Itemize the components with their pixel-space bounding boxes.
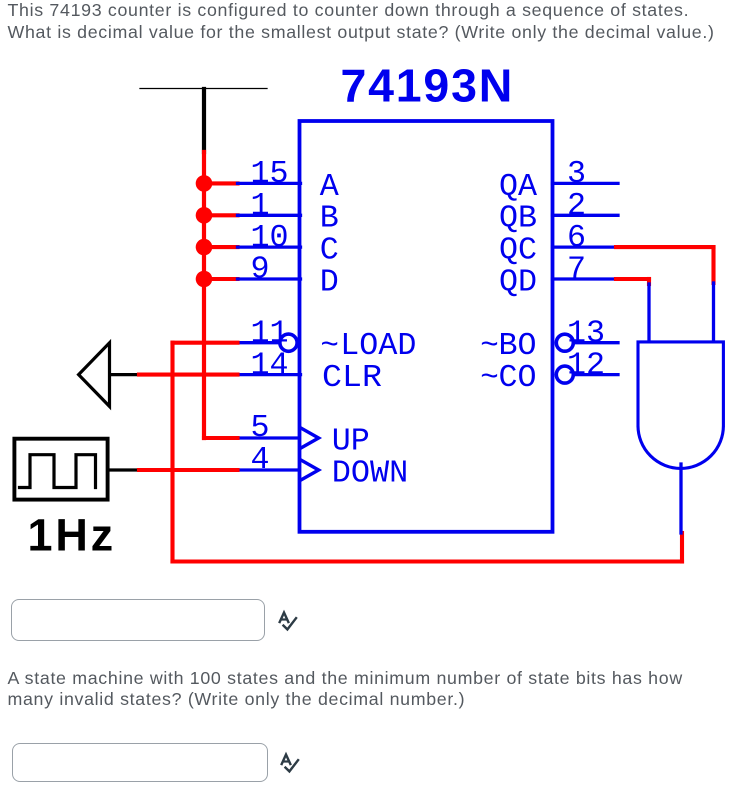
pin CO stub	[574, 373, 618, 376]
label QA	[499, 169, 537, 205]
wire red VCC bus vertical	[202, 152, 206, 438]
wire black probe lead	[110, 373, 139, 376]
wire red QD net horizontal	[616, 277, 649, 281]
pin number 13	[567, 315, 605, 351]
probe X1 triangle	[79, 343, 110, 407]
pin UP stub	[238, 436, 300, 439]
label ~LOAD	[320, 328, 416, 364]
pin BO stub	[574, 341, 618, 344]
junction dot pin 9	[196, 271, 213, 288]
label QD	[499, 264, 537, 300]
svg-text:3: 3	[567, 156, 586, 192]
label 1Hz	[28, 510, 116, 561]
svg-text:7: 7	[567, 252, 586, 288]
edit icon 1	[276, 608, 302, 634]
svg-text:QA: QA	[499, 169, 537, 205]
svg-text:CO: CO	[499, 360, 537, 396]
label ~BO	[480, 328, 536, 364]
label QC	[499, 233, 537, 269]
question 2 text	[8, 668, 683, 711]
pin number 7	[567, 252, 586, 288]
wire red stub pin 1	[204, 213, 238, 217]
svg-text:B: B	[320, 201, 339, 237]
svg-text:~: ~	[480, 328, 499, 364]
svg-text:1: 1	[251, 188, 270, 224]
junction dot pin 10	[196, 239, 213, 256]
svg-text:2: 2	[567, 188, 586, 224]
answer input 2	[12, 743, 268, 782]
pin number 3	[567, 156, 586, 192]
pin number 4	[251, 442, 270, 478]
pin DOWN stub	[238, 468, 300, 471]
AND gate U2	[638, 342, 723, 469]
wire black clock lead	[108, 468, 139, 471]
inversion bubble pin 13	[556, 334, 573, 351]
wire red stub pin 9	[204, 277, 238, 281]
wire blue QC gate input	[712, 283, 715, 341]
label ~CO	[480, 360, 536, 396]
pin number 14	[251, 347, 289, 383]
pin 9 stub	[238, 277, 301, 280]
pin 15 stub	[238, 182, 301, 185]
wire blue gate output vertical	[679, 464, 682, 533]
wire red CLR net horizontal	[139, 373, 238, 377]
svg-text:BO: BO	[499, 328, 537, 364]
label UP	[332, 423, 370, 459]
svg-text:74193N: 74193N	[340, 60, 514, 112]
svg-text:4: 4	[251, 442, 270, 478]
wire red DOWN net horizontal	[139, 468, 238, 472]
IC U1 74193N body	[300, 121, 553, 532]
svg-text:D: D	[320, 264, 339, 300]
svg-text:9: 9	[251, 252, 270, 288]
svg-text:5: 5	[251, 410, 270, 446]
wire red QC net vertical	[711, 247, 715, 283]
wire black VCC vertical	[202, 89, 206, 152]
svg-text:C: C	[320, 233, 339, 269]
pin number 12	[567, 347, 605, 383]
clock source V1 box	[14, 439, 107, 500]
pin number 6	[567, 220, 586, 256]
clock arrow DOWN	[300, 460, 318, 481]
pin 1 stub	[238, 214, 301, 217]
svg-text:12: 12	[567, 347, 605, 383]
svg-text:~: ~	[320, 328, 339, 364]
svg-text:~: ~	[480, 360, 499, 396]
svg-text:LOAD: LOAD	[340, 328, 416, 364]
svg-text:UP: UP	[332, 423, 370, 459]
pin 6 stub	[553, 245, 617, 248]
pin 2 stub	[553, 214, 619, 217]
inversion bubble pin 12	[556, 366, 573, 383]
inversion bubble pin 11	[280, 334, 297, 351]
wire red UP net horizontal	[204, 436, 238, 440]
clock waveform	[20, 455, 96, 488]
svg-text:15: 15	[251, 156, 289, 192]
pin number 5	[251, 410, 270, 446]
pin number 1	[251, 188, 270, 224]
pin LOAD stub	[238, 341, 280, 344]
svg-text:A: A	[320, 169, 339, 205]
svg-text:14: 14	[251, 347, 289, 383]
svg-text:11: 11	[251, 315, 289, 351]
wire red stub pin 10	[204, 245, 238, 249]
svg-text:1Hz: 1Hz	[28, 510, 116, 561]
svg-text:QD: QD	[499, 264, 537, 300]
label DOWN	[332, 455, 409, 491]
pin number 15	[251, 156, 289, 192]
question 1 text	[8, 0, 715, 43]
label C	[320, 233, 339, 269]
answer input 1	[11, 599, 265, 641]
junction dot pin 15	[196, 175, 213, 192]
edit icon 2	[278, 750, 304, 776]
svg-text:6: 6	[567, 220, 586, 256]
wire red stub pin 15	[204, 181, 238, 185]
wire red gate output vertical	[680, 533, 684, 562]
pin 3 stub	[553, 182, 619, 185]
wire blue QD gate input	[647, 284, 650, 341]
pin number 10	[251, 220, 289, 256]
pin number 2	[567, 188, 586, 224]
label QB	[499, 201, 537, 237]
label A	[320, 169, 339, 205]
power rail VCC	[140, 88, 267, 90]
pin number 11	[251, 315, 289, 351]
label D	[320, 264, 339, 300]
pin 10 stub	[238, 245, 301, 248]
wire red LOAD net left vertical	[170, 343, 174, 562]
svg-text:10: 10	[251, 220, 289, 256]
label B	[320, 201, 339, 237]
svg-text:QB: QB	[499, 201, 537, 237]
svg-text:CLR: CLR	[322, 360, 382, 396]
pin 7 stub	[553, 277, 617, 280]
svg-text:QC: QC	[499, 233, 537, 269]
svg-text:DOWN: DOWN	[332, 455, 409, 491]
pin CLR stub	[238, 373, 301, 376]
junction dot pin 1	[196, 207, 213, 224]
pin number 9	[251, 252, 270, 288]
wire red LOAD net horizontal	[173, 341, 238, 345]
label CLR	[322, 360, 382, 396]
svg-text:13: 13	[567, 315, 605, 351]
clock arrow UP	[300, 428, 318, 449]
wire red bottom horizontal	[173, 559, 683, 563]
wire red QC net horizontal	[616, 245, 714, 249]
wire red QD net corner	[647, 279, 651, 284]
